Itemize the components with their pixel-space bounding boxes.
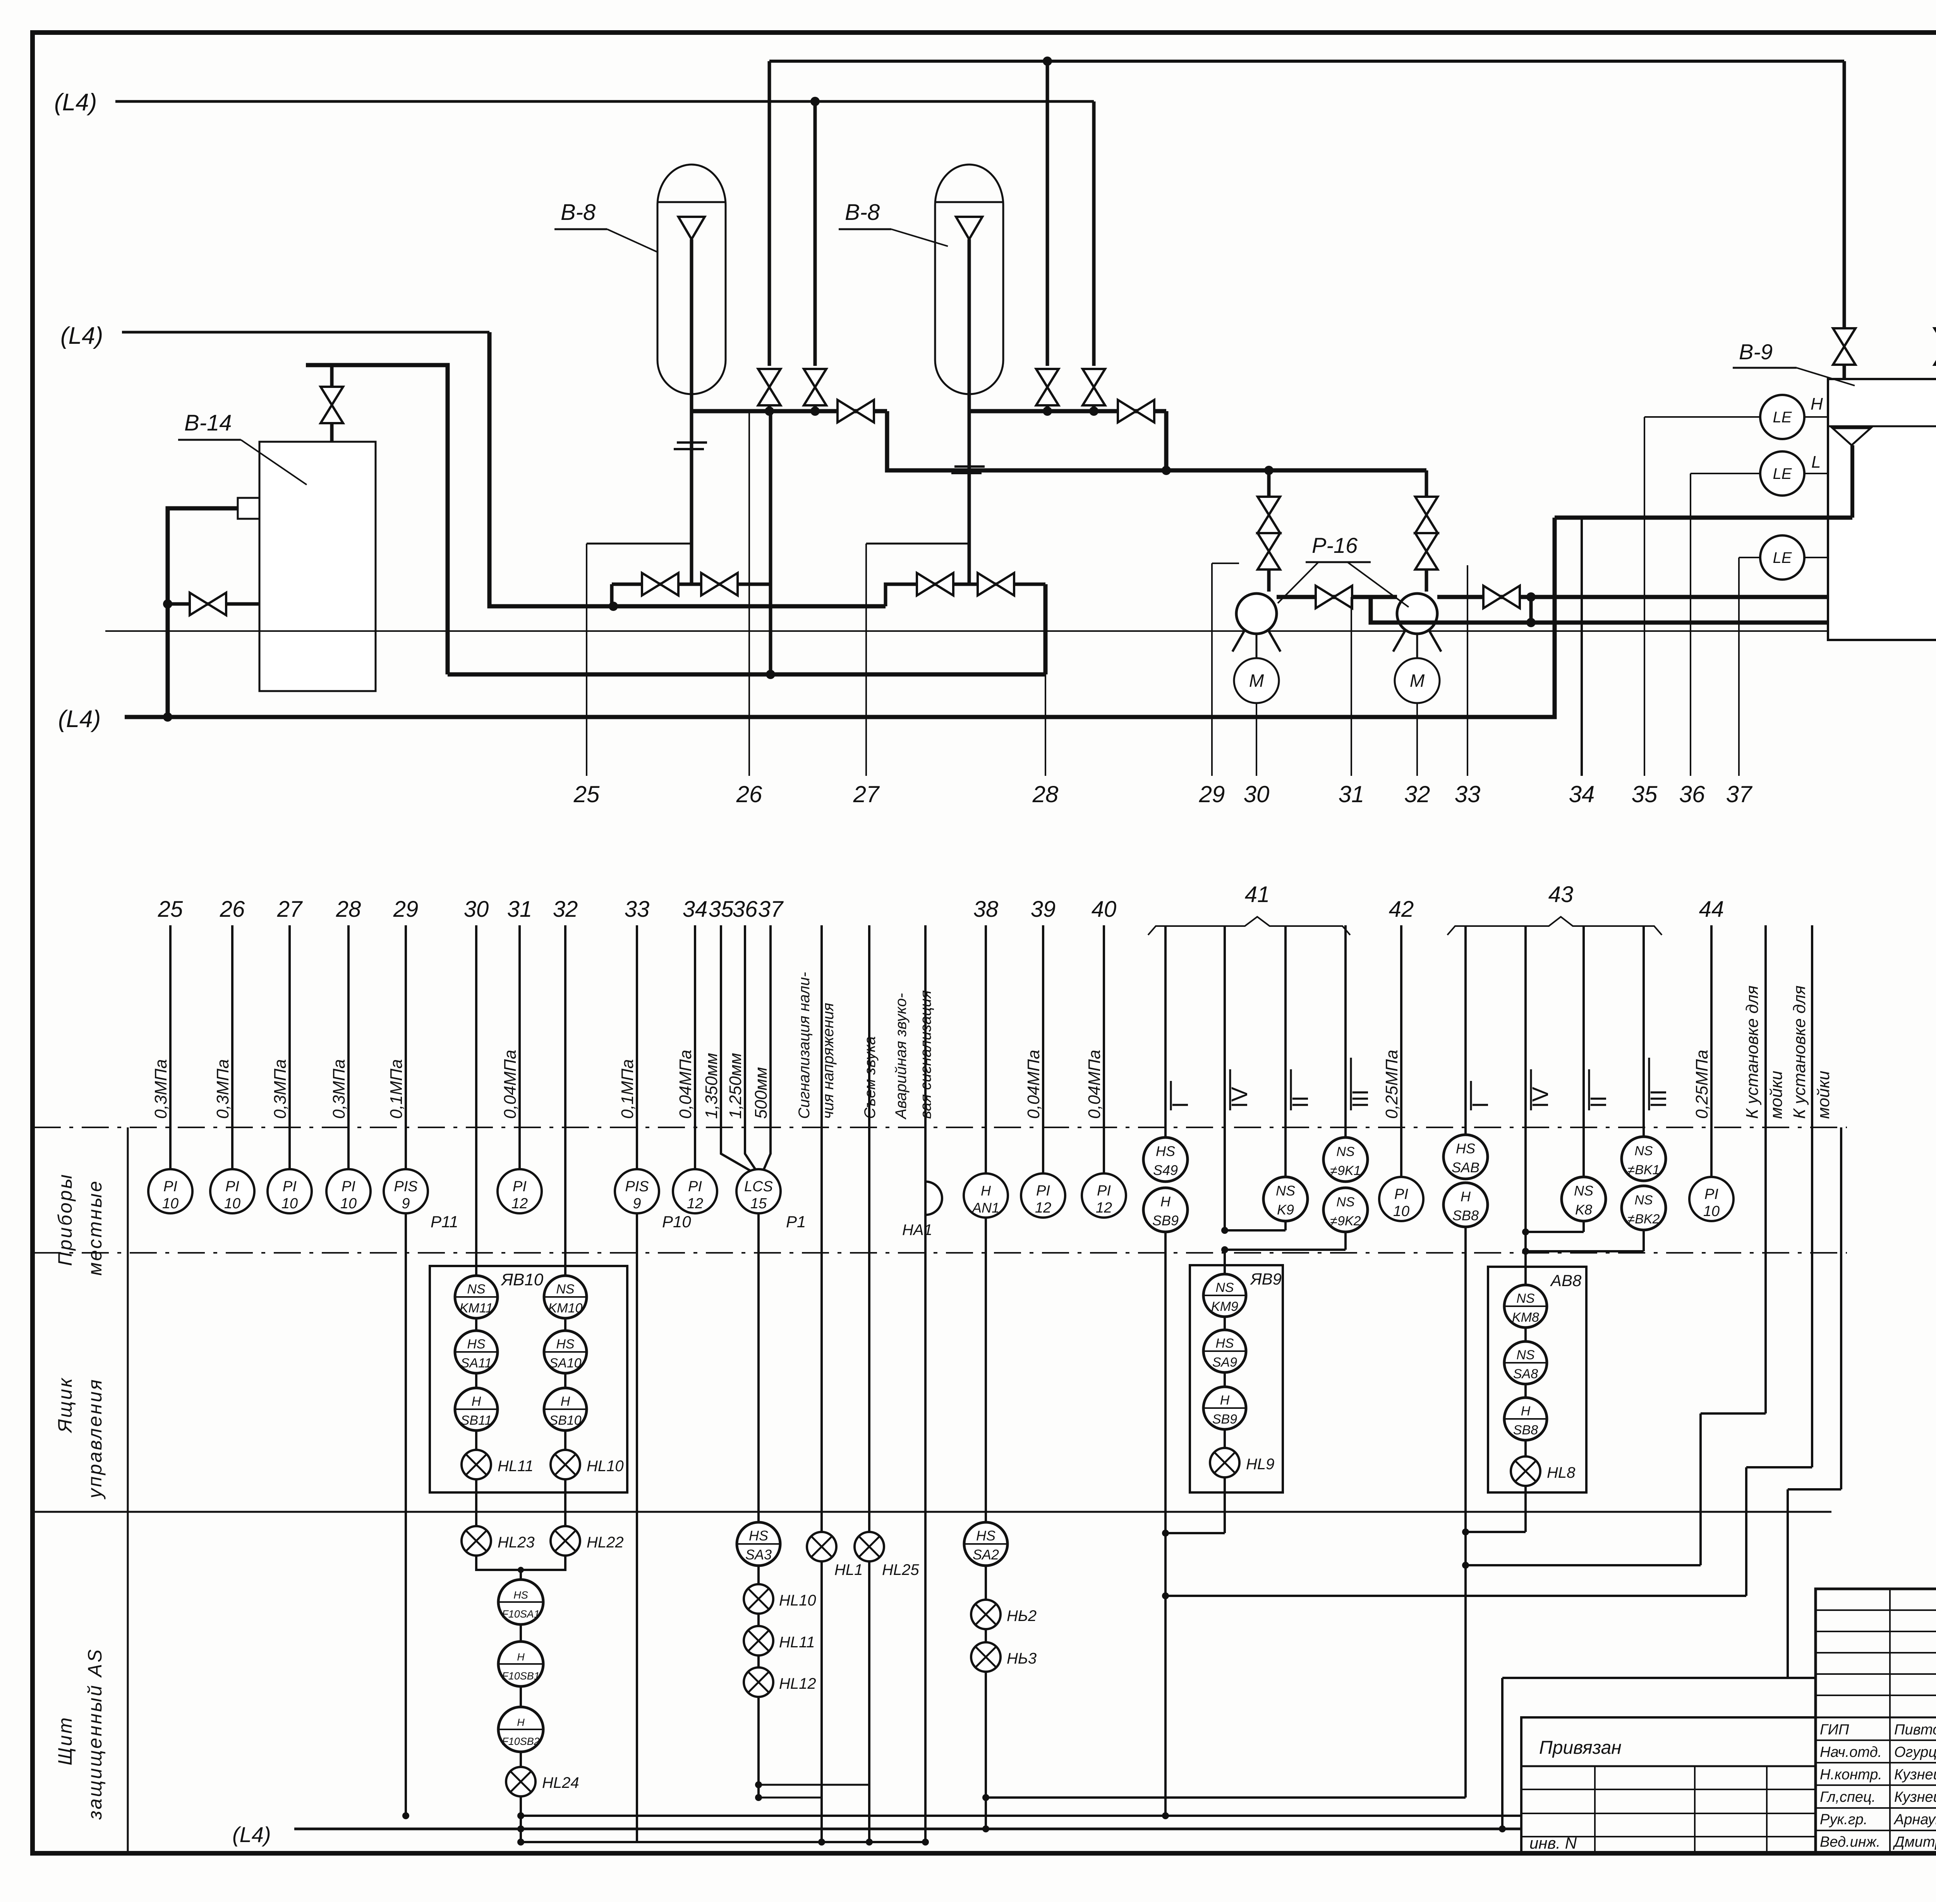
svg-text:В-14: В-14 <box>184 410 232 436</box>
svg-text:41: 41 <box>1245 882 1270 907</box>
svg-text:28: 28 <box>336 897 361 922</box>
button H SB8 in box <box>1504 1398 1547 1440</box>
jog BK2 to IV column 43 <box>1643 1230 1645 1251</box>
valve on riser A <box>758 369 781 405</box>
wire horn column down <box>924 1216 927 1842</box>
lamp HL25 <box>855 1532 884 1561</box>
staircase wire from K column 2 <box>1746 1466 1812 1468</box>
junction transfer line <box>1162 466 1171 475</box>
bottom bus A extension <box>1165 1815 1521 1817</box>
band separator local instruments bottom <box>34 1252 1847 1254</box>
svg-text:25: 25 <box>158 897 183 922</box>
chain column in YaV9 <box>1224 1250 1226 1463</box>
wire lamp bus to chain <box>476 1556 565 1570</box>
gate valve B-14 drain <box>190 593 226 615</box>
gate valve after pump2 <box>1483 586 1520 608</box>
svg-text:Дмитриева: Дмитриева <box>1893 1834 1936 1850</box>
svg-text:Р10: Р10 <box>662 1213 691 1231</box>
wire B-14 drain valve line <box>168 602 259 606</box>
switch NS SA8 <box>1504 1341 1547 1384</box>
wire P-16 discharge line <box>1277 595 1397 599</box>
control box YaV10 outline <box>430 1266 627 1492</box>
svg-text:0,1МПа: 0,1МПа <box>387 1059 406 1119</box>
signal columns of lower section <box>169 925 172 1169</box>
svg-text:HS: HS <box>1156 1143 1175 1159</box>
svg-text:NS: NS <box>1574 1183 1593 1199</box>
wire B-14 top vent run <box>306 365 448 674</box>
svg-text:NS: NS <box>1276 1183 1295 1199</box>
svg-text:защищенный AS: защищенный AS <box>84 1648 106 1820</box>
svg-text:0,04МПа: 0,04МПа <box>501 1050 520 1119</box>
svg-text:HL12: HL12 <box>779 1675 816 1692</box>
svg-text:Вед.инж.: Вед.инж. <box>1820 1834 1880 1850</box>
svg-text:Ящик: Ящик <box>54 1377 76 1434</box>
svg-text:мойки: мойки <box>1814 1071 1833 1119</box>
svg-text:SB8: SB8 <box>1513 1423 1538 1437</box>
svg-text:HL25: HL25 <box>882 1561 919 1578</box>
svg-text:ЯВ10: ЯВ10 <box>501 1270 544 1289</box>
svg-text:Рук.гр.: Рук.гр. <box>1820 1811 1867 1828</box>
tank B-9 funnel stem <box>1850 445 1854 518</box>
svg-text:1,350мм: 1,350мм <box>702 1053 721 1119</box>
jog K9 to IV column <box>1284 1221 1287 1230</box>
wire L4 mid line <box>122 331 489 334</box>
svg-text:H: H <box>1220 1393 1230 1408</box>
svg-text:42: 42 <box>1389 897 1414 922</box>
wire L4 mid drop and distribution <box>489 332 886 606</box>
svg-text:Р1: Р1 <box>786 1213 806 1231</box>
svg-text:М: М <box>1249 671 1264 691</box>
level sensor LE lower <box>1760 535 1804 580</box>
svg-text:F10SA1: F10SA1 <box>502 1608 540 1620</box>
svg-text:NS: NS <box>1336 1144 1355 1159</box>
wire B-14 left loop <box>168 508 238 717</box>
wire HL24 to bottom buses <box>520 1796 522 1842</box>
valve pair vessel2 <box>917 573 953 595</box>
svg-text:30: 30 <box>1244 781 1270 807</box>
wire AN1 column down to SA2 <box>985 1218 987 1521</box>
row label column divider <box>127 1127 129 1853</box>
svg-text:HS: HS <box>556 1337 575 1352</box>
svg-text:ГИП: ГИП <box>1820 1722 1849 1738</box>
svg-text:F10SB2: F10SB2 <box>502 1736 540 1747</box>
wire vessel2 drain drop <box>1044 584 1048 674</box>
svg-text:Р11: Р11 <box>431 1213 458 1231</box>
level sensor LE L <box>1760 451 1804 496</box>
svg-text:0,25МПа: 0,25МПа <box>1382 1050 1401 1119</box>
button H SB9 in box <box>1203 1387 1246 1429</box>
wire vessel2 bottom manifold <box>969 409 1166 413</box>
wire L4 top line <box>115 100 1094 103</box>
LCS feeder columns 35 36 37 <box>721 925 751 1171</box>
wire vessel2 feed riser D <box>1092 101 1096 366</box>
svg-text:0,1МПа: 0,1МПа <box>618 1059 637 1119</box>
svg-text:Щит: Щит <box>54 1716 76 1765</box>
svg-text:34: 34 <box>1569 781 1595 807</box>
lamp HL9 <box>1210 1448 1239 1477</box>
svg-text:NS: NS <box>1516 1348 1535 1362</box>
svg-text:36: 36 <box>1679 781 1705 807</box>
button H SB10 <box>544 1388 587 1431</box>
svg-text:31: 31 <box>507 897 532 922</box>
break symbol on dip pipe 1 <box>677 441 707 444</box>
svg-text:0,04МПа: 0,04МПа <box>1085 1050 1104 1119</box>
button H SB11 <box>455 1388 498 1431</box>
svg-text:H: H <box>1160 1194 1171 1209</box>
svg-text:Р-16: Р-16 <box>1312 533 1358 557</box>
svg-text:36: 36 <box>733 897 758 922</box>
wire manifold2 drop <box>1164 411 1169 470</box>
svg-text:Н.контр.: Н.контр. <box>1820 1767 1882 1783</box>
control box AV8 outline <box>1488 1267 1586 1492</box>
svg-text:Арнаутова: Арнаутова <box>1893 1811 1936 1828</box>
svg-text:местные: местные <box>84 1180 106 1276</box>
pressure switch PIS9 line33 <box>615 1169 659 1213</box>
svg-text:(L4): (L4) <box>58 706 101 732</box>
switch HS SA3 <box>737 1522 780 1566</box>
svg-text:NS: NS <box>1215 1280 1234 1295</box>
svg-text:39: 39 <box>1031 897 1056 922</box>
wire vessel1 feed riser A <box>768 61 771 366</box>
wire HL9 down and to I column <box>1224 1477 1226 1533</box>
staircase wire from K column 1 <box>1701 1412 1766 1415</box>
svg-text:27: 27 <box>277 897 303 922</box>
svg-text:инв. N: инв. N <box>1529 1834 1577 1852</box>
svg-text:Кузнецов: Кузнецов <box>1894 1789 1936 1805</box>
svg-text:H: H <box>517 1651 525 1663</box>
svg-text:500мм: 500мм <box>752 1067 771 1119</box>
svg-text:HL11: HL11 <box>498 1458 534 1475</box>
svg-text:32: 32 <box>553 897 578 922</box>
svg-text:H: H <box>1521 1404 1531 1419</box>
svg-text:В-8: В-8 <box>845 200 880 225</box>
tank B-14 body <box>259 442 376 691</box>
button H F10SB1 <box>498 1642 543 1686</box>
valve on B-14 vent <box>330 423 334 442</box>
band separator top of instrument rows <box>34 1127 1847 1128</box>
bus SAB to staircase 1 <box>1466 1564 1701 1566</box>
bus from SA2 chain to SAB column <box>986 1796 1466 1799</box>
vessel B-8 center dip pipe <box>690 239 693 584</box>
svg-text:KM10: KM10 <box>548 1301 583 1316</box>
svg-text:25: 25 <box>573 781 600 807</box>
wire L4 bottom supply line <box>125 518 1555 717</box>
thin equipment line to line25 <box>587 543 692 545</box>
lamp HL23 <box>475 1479 477 1526</box>
brace for group 43 <box>1447 917 1662 935</box>
svg-text:АВ8: АВ8 <box>1550 1271 1582 1290</box>
svg-text:HL10: HL10 <box>587 1458 624 1475</box>
chain column 32 in box <box>564 1276 566 1450</box>
svg-text:32: 32 <box>1404 781 1430 807</box>
svg-text:В-9: В-9 <box>1739 340 1773 364</box>
svg-text:SB10: SB10 <box>549 1413 581 1428</box>
svg-text:НА1: НА1 <box>902 1221 932 1238</box>
chain column in AV8 <box>1524 1251 1527 1471</box>
svg-text:40: 40 <box>1092 897 1117 922</box>
lamp HL12 on AS panel <box>744 1667 773 1697</box>
lamp HL10 on AS panel <box>744 1584 773 1614</box>
relay NS 9K1 <box>1323 1137 1368 1182</box>
valve on B-9 inlet <box>1833 328 1855 365</box>
tank B-9 funnel <box>1833 428 1871 445</box>
svg-text:43: 43 <box>1548 882 1574 907</box>
contactor NS K9 <box>1263 1177 1308 1221</box>
svg-text:28: 28 <box>1032 781 1059 807</box>
svg-text:SA11: SA11 <box>461 1356 492 1371</box>
wire manifold1 step down to transfer line <box>887 411 1426 470</box>
wire vessel2 feed riser C <box>1046 61 1049 366</box>
svg-text:35: 35 <box>1632 781 1658 807</box>
svg-text:44: 44 <box>1699 897 1724 922</box>
svg-text:К установке для: К установке для <box>1790 985 1809 1119</box>
vessel B-8 inlet funnel <box>678 217 705 239</box>
svg-text:H: H <box>1461 1189 1471 1204</box>
level sensor LE H <box>1760 395 1804 439</box>
wire vessel1 drain riser <box>769 411 772 674</box>
svg-text:38: 38 <box>973 897 999 922</box>
wire second transfer run to B-9 <box>1371 597 1828 623</box>
svg-text:H: H <box>561 1394 570 1409</box>
svg-text:NS: NS <box>556 1282 575 1297</box>
svg-text:К установке для: К установке для <box>1743 985 1762 1119</box>
svg-text:KM8: KM8 <box>1512 1310 1539 1325</box>
pump P-16 second <box>1397 593 1437 634</box>
svg-text:HS: HS <box>513 1589 528 1601</box>
gate valve after pump1 <box>1316 586 1352 608</box>
svg-text:1,250мм: 1,250мм <box>726 1053 745 1119</box>
svg-text:(L4): (L4) <box>60 322 103 349</box>
wire HL8 down to SAB column <box>1524 1486 1527 1532</box>
pressure gauge PI12 line34 <box>673 1169 717 1213</box>
svg-text:≠9K2: ≠9K2 <box>1330 1214 1361 1228</box>
signature table frame <box>1816 1589 1936 1853</box>
horn HA1 <box>925 1182 942 1215</box>
svg-text:HS: HS <box>749 1528 768 1544</box>
svg-text:SA2: SA2 <box>973 1547 999 1563</box>
starter NS KM11 <box>455 1276 498 1318</box>
svg-text:HL11: HL11 <box>779 1634 815 1651</box>
vessel B-8 center dip pipe <box>968 239 971 584</box>
lamp HL24 <box>506 1767 535 1796</box>
svg-text:Приборы: Приборы <box>54 1173 76 1266</box>
jog 9K2 to IV column <box>1344 1232 1347 1250</box>
svg-text:33: 33 <box>1455 781 1481 807</box>
svg-text:29: 29 <box>393 897 419 922</box>
right boundary column of band <box>1840 1127 1842 1489</box>
svg-text:0,04МПа: 0,04МПа <box>676 1050 695 1119</box>
svg-text:SA10: SA10 <box>549 1356 581 1371</box>
relay NS 9K2 <box>1323 1188 1368 1232</box>
wire column33 down <box>636 1213 638 1842</box>
svg-text:ЯВ9: ЯВ9 <box>1250 1270 1282 1288</box>
wire lower return header <box>448 672 1045 677</box>
contactor NS K8 <box>1562 1177 1606 1221</box>
svg-text:H: H <box>472 1394 481 1409</box>
wire B-9 inlet riser from collector <box>1843 61 1846 328</box>
svg-text:Аварийная звуко-: Аварийная звуко- <box>892 993 910 1120</box>
vessel B-8 inlet funnel <box>956 217 982 239</box>
svg-text:F10SB1: F10SB1 <box>502 1670 540 1682</box>
bottom bus B <box>521 1841 925 1843</box>
svg-text:SB8: SB8 <box>1452 1208 1479 1223</box>
wire top collector line <box>769 60 1844 63</box>
junction dots on bottom buses <box>517 1812 524 1819</box>
relay NS BK2 <box>1622 1186 1666 1230</box>
wire twin-valve line vessel1 <box>612 583 771 586</box>
switch HS SA2 <box>964 1522 1007 1566</box>
pressure gauge PI10 line28 <box>326 1169 371 1213</box>
lamp HL8 <box>1511 1456 1540 1486</box>
svg-text:30: 30 <box>464 897 489 922</box>
wire pump2 discharge run to B-9 <box>1437 595 1828 599</box>
lamp HL3 <box>971 1642 1001 1672</box>
svg-text:Привязан: Привязан <box>1539 1738 1622 1758</box>
svg-text:34: 34 <box>683 897 708 922</box>
wire vessel1 feed riser B <box>814 101 817 366</box>
tank B-14 side port <box>238 498 259 519</box>
switch HS SA10 <box>544 1331 587 1373</box>
gate valve on manifold 2 <box>1118 400 1154 422</box>
svg-text:Кузнецов: Кузнецов <box>1894 1767 1936 1783</box>
level controller LCS15 <box>736 1169 781 1213</box>
svg-text:Сигнализация нали-: Сигнализация нали- <box>796 972 813 1119</box>
svg-text:SB11: SB11 <box>461 1413 492 1428</box>
svg-text:HL22: HL22 <box>587 1534 624 1551</box>
wire P-16 suction risers with valves <box>1267 470 1271 497</box>
svg-text:SB9: SB9 <box>1152 1213 1179 1228</box>
pressure gauge PI10 line44 <box>1689 1177 1733 1221</box>
button H F10SB2 <box>498 1707 543 1752</box>
svg-text:NS: NS <box>467 1282 486 1297</box>
svg-text:KM9: KM9 <box>1211 1299 1238 1314</box>
lamp HL1 <box>807 1532 836 1561</box>
svg-text:37: 37 <box>1726 781 1753 807</box>
svg-text:LE: LE <box>1773 549 1792 566</box>
svg-text:0,04МПа: 0,04МПа <box>1024 1050 1043 1119</box>
annunciator H AN1 <box>964 1173 1008 1218</box>
svg-text:мойки: мойки <box>1767 1071 1786 1119</box>
starter NS KM8 <box>1504 1285 1547 1328</box>
svg-text:0,3МПа: 0,3МПа <box>213 1059 232 1119</box>
wire twin-valve line vessel2 <box>886 584 1045 606</box>
svg-text:HS: HS <box>976 1528 995 1544</box>
brace for group 41 <box>1148 917 1350 935</box>
svg-text:K8: K8 <box>1575 1202 1592 1218</box>
svg-text:≠9K1: ≠9K1 <box>1330 1163 1361 1178</box>
svg-text:≠BK2: ≠BK2 <box>1628 1212 1660 1226</box>
push button H SB9 <box>1143 1188 1188 1232</box>
svg-text:KM11: KM11 <box>460 1301 493 1316</box>
lamp HL11 on AS panel <box>744 1626 773 1655</box>
hand switch HS S49 <box>1143 1137 1188 1182</box>
bus I column to staircase 2 <box>1165 1595 1746 1597</box>
svg-text:NS: NS <box>1634 1144 1653 1158</box>
bottom bus A <box>521 1815 1165 1817</box>
junction on L4 top line <box>810 97 820 106</box>
svg-text:L: L <box>1811 453 1821 472</box>
svg-text:HL9: HL9 <box>1246 1456 1274 1473</box>
tank B-9 body <box>1828 379 1936 640</box>
junction on top collector <box>1043 57 1052 66</box>
svg-text:HL8: HL8 <box>1547 1464 1576 1481</box>
wire vessel1 bottom manifold <box>692 409 887 413</box>
lamp HL11 <box>462 1450 491 1479</box>
valve on riser D <box>1083 369 1105 405</box>
jog K8 to IV column 43 <box>1582 1221 1585 1232</box>
svg-text:HL10: HL10 <box>779 1592 816 1609</box>
svg-text:HL1: HL1 <box>834 1561 863 1578</box>
svg-text:HS: HS <box>1456 1141 1475 1156</box>
pressure gauge PI12 line39 <box>1021 1173 1065 1218</box>
vessel B-8 outline <box>657 165 726 205</box>
valve on riser B <box>804 369 826 405</box>
svg-text:26: 26 <box>736 781 762 807</box>
svg-text:NS: NS <box>1336 1195 1355 1209</box>
svg-text:NS: NS <box>1634 1193 1653 1208</box>
staircase wire 3 <box>1788 1488 1841 1491</box>
starter NS KM10 <box>544 1276 587 1318</box>
leader lines for numbers 25-44 top row <box>586 544 587 776</box>
lamp HL2 <box>971 1600 1001 1629</box>
svg-text:Пивторак: Пивторак <box>1894 1722 1936 1738</box>
svg-text:0,3МПа: 0,3МПа <box>271 1059 290 1119</box>
hand switch HS SAB <box>1443 1135 1488 1179</box>
svg-text:SA9: SA9 <box>1212 1355 1237 1370</box>
svg-text:0,3МПа: 0,3МПа <box>151 1059 170 1119</box>
svg-text:HL23: HL23 <box>498 1534 535 1551</box>
gate valve on manifold 1 <box>838 400 874 422</box>
svg-text:HS: HS <box>1215 1336 1234 1351</box>
motor M of P-16 second <box>1416 634 1418 658</box>
starter NS KM9 <box>1203 1274 1246 1317</box>
pressure gauge PI12 line40 <box>1082 1173 1126 1218</box>
valve pair vessel1 <box>642 573 678 595</box>
control box YaV9 outline <box>1190 1265 1283 1492</box>
svg-text:управления: управления <box>84 1378 106 1499</box>
svg-text:35: 35 <box>709 897 734 922</box>
svg-text:Огурцов: Огурцов <box>1894 1744 1936 1760</box>
svg-text:(L4): (L4) <box>232 1822 271 1847</box>
wire B-9 funnel feed <box>1555 516 1852 520</box>
pressure gauge PI10 line42 <box>1379 1177 1423 1221</box>
svg-text:SB9: SB9 <box>1212 1412 1237 1427</box>
svg-text:27: 27 <box>853 781 880 807</box>
switch HS F10SA1 <box>498 1580 543 1624</box>
bus to title block area <box>1502 1677 1816 1679</box>
svg-text:31: 31 <box>1339 781 1364 807</box>
binding block frame <box>1521 1717 1816 1853</box>
wire SA3 chain to buses <box>757 1697 760 1798</box>
svg-text:SA8: SA8 <box>1513 1367 1538 1381</box>
svg-text:S49: S49 <box>1153 1162 1178 1178</box>
pressure switch PIS9 line29 <box>384 1169 428 1213</box>
pressure gauge PI12 line31 <box>498 1169 542 1213</box>
push button H SB8 <box>1443 1183 1488 1227</box>
pressure gauge PI10 line25 <box>148 1169 192 1213</box>
chain column 30 in box <box>475 1276 477 1450</box>
band separator control box bottom <box>34 1511 1831 1513</box>
svg-text:K9: K9 <box>1277 1202 1294 1218</box>
svg-text:H: H <box>517 1717 525 1728</box>
svg-text:HL24: HL24 <box>542 1774 579 1791</box>
valve on B-9 stub <box>1934 328 1936 365</box>
wire LCS down to SA3 <box>757 1213 760 1521</box>
wire column29 down <box>405 1213 407 1816</box>
svg-text:М: М <box>1410 671 1425 691</box>
tank B-9 inner level line <box>1828 425 1936 427</box>
wire group41 I column down <box>1164 1232 1167 1816</box>
